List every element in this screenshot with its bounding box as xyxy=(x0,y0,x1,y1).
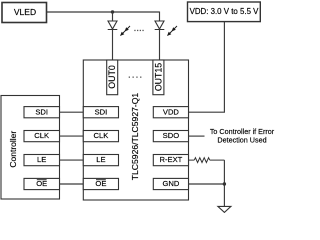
wire LED1 cathode to OUT0 xyxy=(112,30,114,61)
wire resistor to ground rail xyxy=(223,160,225,206)
svg-text:VDD: 3.0 V to 5.5 V: VDD: 3.0 V to 5.5 V xyxy=(190,7,260,16)
node junction GND xyxy=(223,182,226,185)
svg-text:OE: OE xyxy=(95,179,106,188)
wire LED2 cathode to OUT15 xyxy=(159,30,161,61)
svg-text:Detection Used: Detection Used xyxy=(217,135,266,144)
wire OE xyxy=(60,183,84,185)
svg-text:Controller: Controller xyxy=(8,131,18,168)
wire VLED rail xyxy=(47,11,160,13)
pin R-EXT (IC) xyxy=(153,155,188,166)
svg-text:OUT0: OUT0 xyxy=(107,65,117,89)
pin CLK (controller) xyxy=(24,131,60,142)
pin SDI (IC) xyxy=(83,107,118,118)
ground symbol xyxy=(218,206,231,212)
wire LED1 anode xyxy=(112,12,114,21)
LED D2 xyxy=(155,21,177,36)
pin OE-bar (controller) xyxy=(24,178,60,189)
VLED source box xyxy=(2,3,47,23)
svg-text:GND: GND xyxy=(162,179,179,188)
pin OE-bar (IC) xyxy=(83,178,118,189)
svg-text:LE: LE xyxy=(37,155,46,164)
svg-text:SDI: SDI xyxy=(35,107,48,116)
pin SDO (IC) xyxy=(153,131,188,142)
ellipsis between LEDs xyxy=(134,30,143,31)
svg-text:SDO: SDO xyxy=(163,131,180,140)
resistor R-EXT xyxy=(189,158,225,163)
wire CLK xyxy=(60,135,84,137)
svg-text:VLED: VLED xyxy=(14,7,36,17)
wire LE xyxy=(60,159,84,161)
Controller box xyxy=(1,96,60,200)
pin LE (controller) xyxy=(24,155,60,166)
node junction on VLED rail xyxy=(111,10,114,13)
VDD supply box xyxy=(188,2,261,22)
pin OUT0 xyxy=(107,60,118,95)
pin LE (IC) xyxy=(83,155,118,166)
svg-text:OUT15: OUT15 xyxy=(153,63,163,91)
LED D1 xyxy=(108,21,130,36)
pin CLK (IC) xyxy=(83,131,118,142)
pin VDD (IC) xyxy=(153,107,188,118)
pin OUT15 xyxy=(153,60,164,95)
wire LED2 anode xyxy=(159,12,161,22)
svg-text:R-EXT: R-EXT xyxy=(160,155,183,164)
svg-text:OE: OE xyxy=(36,179,47,188)
svg-text:TLC5926/TLC5927-Q1: TLC5926/TLC5927-Q1 xyxy=(130,93,140,181)
wire SDI xyxy=(60,111,84,113)
wire GND pin to ground rail xyxy=(189,183,225,185)
svg-text:LE: LE xyxy=(96,155,105,164)
ellipsis between OUT pins xyxy=(129,77,142,78)
wire VDD box to VDD pin xyxy=(189,22,225,113)
svg-text:CLK: CLK xyxy=(94,131,109,140)
pin SDI (controller) xyxy=(24,107,60,118)
svg-text:CLK: CLK xyxy=(34,131,49,140)
op IC U1 TLC5926/TLC5927-Q1 outline xyxy=(83,60,188,200)
wire SDO stub xyxy=(189,135,205,137)
pin GND (IC) xyxy=(153,178,188,189)
svg-text:VDD: VDD xyxy=(163,107,180,116)
note: SDO annotation xyxy=(210,127,275,144)
svg-text:SDI: SDI xyxy=(95,107,108,116)
